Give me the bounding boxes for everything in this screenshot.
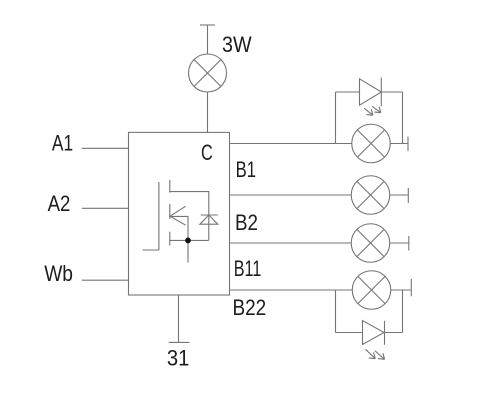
terminal bar 31 (ground): [169, 341, 190, 343]
terminal bar row 2: [407, 188, 409, 203]
terminal bar row 1: [407, 137, 409, 152]
wire branch right LED1: [402, 92, 404, 144]
svg-text:Wb: Wb: [44, 261, 73, 286]
LED L2 emission arrow 1: [366, 349, 376, 358]
wire LED2 row left: [336, 332, 363, 334]
MOSFET Q1 source arrow: [170, 206, 186, 225]
LED L2 triangle: [363, 321, 385, 345]
svg-text:3W: 3W: [222, 32, 252, 57]
wire LED1 row right: [381, 91, 402, 93]
MOSFET Q1 gate bar and lead: [142, 182, 159, 250]
svg-text:C: C: [201, 140, 213, 165]
wire pin 31: [178, 295, 180, 342]
wire lamp 3W to control unit: [207, 92, 209, 132]
wire row C to lamp E2: [230, 143, 352, 145]
svg-text:B11: B11: [234, 256, 261, 281]
wire source stub down: [187, 240, 189, 262]
wire row B2 to lamp E4: [230, 242, 352, 244]
terminal bar row 4: [410, 279, 412, 297]
wire branch right LED2: [402, 290, 404, 333]
body diode D1: [200, 215, 218, 224]
LED L2 emission arrow 2: [375, 351, 385, 360]
control unit box: [129, 132, 230, 295]
wire row B1 to lamp E3: [230, 194, 352, 196]
wire top bar to lamp 3W: [207, 25, 209, 54]
lamp E1 3W: [189, 54, 227, 92]
LED L2 cathode bar: [384, 321, 386, 345]
MOSFET Q1 source wire: [170, 216, 188, 240]
svg-text:B22: B22: [233, 295, 267, 320]
wire pin Wb: [82, 279, 129, 281]
LED L1 triangle: [360, 79, 382, 105]
svg-text:A1: A1: [52, 131, 73, 156]
MOSFET Q1 drain link wire: [170, 192, 209, 241]
wire lamp E5 to terminal: [391, 289, 412, 291]
wire row B11 to lamp E5: [230, 289, 353, 291]
wire LED2 row right: [385, 332, 403, 334]
MOSFET Q1 channel (dashed): [169, 180, 171, 246]
wire pin A1: [82, 147, 129, 149]
svg-text:B2: B2: [235, 210, 258, 235]
wire LED1 row left: [336, 91, 360, 93]
lamp E3: [351, 176, 390, 215]
MOSFET Q1 bottom rail: [169, 239, 209, 241]
lamp E4: [351, 224, 390, 263]
svg-text:A2: A2: [48, 191, 71, 216]
wire lamp E2 to terminal: [390, 143, 408, 145]
LED L1 emission arrow 2: [372, 106, 381, 112]
svg-text:31: 31: [167, 346, 190, 371]
terminal bar top (supply): [200, 24, 215, 26]
wire lamp E4 to terminal: [390, 242, 409, 244]
lamp E2: [352, 124, 391, 163]
wire lamp E3 to terminal: [390, 194, 409, 196]
junction dot: [185, 238, 191, 244]
wire pin A2: [82, 207, 129, 209]
svg-text:B1: B1: [236, 157, 256, 182]
terminal bar row 3: [408, 236, 410, 251]
lamp E5: [352, 271, 391, 310]
wire branch left LED1: [335, 92, 337, 144]
LED L1 emission arrow 1: [364, 108, 373, 115]
LED L1 cathode bar: [380, 78, 382, 107]
wire branch left LED2: [335, 290, 337, 333]
